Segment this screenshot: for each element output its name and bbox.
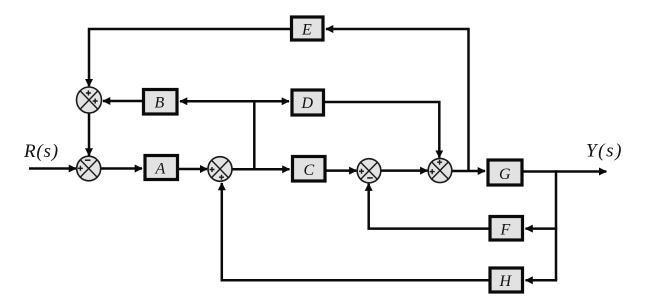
wire branch from output down along x=556 to H row [555,170,558,280]
wire B output into S1 right side [103,100,144,103]
svg-text:B: B [155,95,165,112]
wire takeoff left into block B [180,100,256,103]
wire takeoff vertical up to E row then left into E [326,29,469,171]
wire R(s) input to summing junction S2 [29,167,76,170]
wire C output to summing junction S4 [325,169,356,172]
wire F output left then up into S4 bottom [369,184,490,229]
wire E output left then down into summing junction S1 [89,29,292,86]
wire branch left into block H [526,279,558,282]
wire H output left then up into S3 bottom [222,183,490,280]
summing junction S2 [77,156,101,181]
svg-text:Y(s): Y(s) [586,141,623,162]
block B [144,90,178,115]
wire takeoff right into block D [253,100,289,103]
wire G output to Y(s) with arrow [522,170,606,173]
svg-text:A: A [155,161,166,178]
svg-text:G: G [499,166,511,183]
wire S1 output down into summing junction S2 [88,113,91,156]
wire A output to summing junction S3 [178,168,208,171]
wire takeoff vertical from S3 output up to B/D row [253,100,256,169]
svg-text:R(s): R(s) [23,141,59,162]
block A [145,156,178,180]
wire D output right then down into S5 top [324,102,440,158]
block H [490,268,523,292]
block C [293,157,326,182]
svg-text:H: H [499,273,513,290]
summing junction S1 [77,87,102,113]
summing junction S5 [428,158,452,182]
block G [488,160,522,185]
wire S4 output to summing junction S5 [381,169,428,172]
summing junction S3 [208,157,232,182]
block D [292,90,324,115]
wire S3 output to block C [232,168,290,171]
svg-text:D: D [301,95,314,112]
summing junction S4 [357,159,381,183]
block E [292,17,324,40]
svg-text:C: C [304,162,315,179]
wire S2 output to block A [101,167,143,170]
block F [490,217,523,241]
wire S5 output to block G [452,170,485,173]
svg-text:E: E [301,22,312,39]
wire branch left into block F [526,227,558,230]
svg-text:F: F [500,222,511,239]
